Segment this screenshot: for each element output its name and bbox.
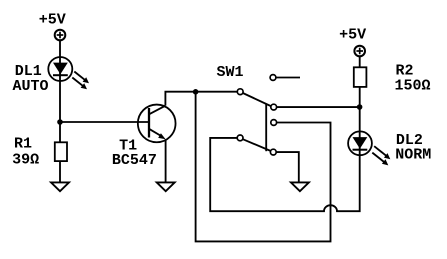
wire collector net down, across bottom, up to SW1 throw2 <box>196 92 331 242</box>
wire SW1 throw1 to R2/DL2 node <box>276 106 359 108</box>
ground (below SW1) <box>291 182 309 191</box>
ground (below T1 emitter) <box>157 182 175 191</box>
wire R1 to ground <box>59 161 61 182</box>
wire node A to T1 base <box>60 121 149 123</box>
switch SW1 upper pole arm <box>243 93 271 106</box>
wire terminal to DL1 and down to node A <box>59 41 61 143</box>
svg-text:150Ω: 150Ω <box>395 78 431 95</box>
svg-text:BC547: BC547 <box>112 152 157 169</box>
switch SW1 lower pole arm <box>243 139 271 151</box>
svg-text:39Ω: 39Ω <box>12 152 39 169</box>
power terminal +5V left <box>55 30 66 41</box>
switch SW1 upper pole common contact <box>237 89 243 95</box>
svg-text:+5V: +5V <box>339 26 366 43</box>
wire SW1 lower common down and right to DL2 cathode (with hop) <box>210 138 360 211</box>
node C junction dot (R2/DL2 net) <box>357 104 363 110</box>
transistor T1 <box>138 105 176 143</box>
power terminal +5V right <box>354 46 365 57</box>
LED DL1 <box>48 57 89 89</box>
node B junction dot (collector net) <box>193 89 199 95</box>
switch SW1 unused contact with stub <box>270 75 300 81</box>
switch SW1 upper throw 1 contact <box>271 104 277 110</box>
node A junction dot <box>57 119 63 125</box>
switch SW1 mechanical link bar <box>265 104 267 151</box>
svg-text:NORM: NORM <box>395 146 431 163</box>
switch SW1 upper throw 2 contact <box>271 120 277 126</box>
resistor R2 <box>354 67 367 87</box>
switch SW1 lower throw contact <box>270 149 276 155</box>
wire R2 through DL2 down <box>359 87 361 155</box>
svg-text:AUTO: AUTO <box>13 78 49 95</box>
ground (below R1) <box>51 182 69 191</box>
wire T1 collector up and right to SW1 common <box>165 92 237 106</box>
svg-text:R1: R1 <box>14 136 32 153</box>
wire T1 emitter to ground <box>165 139 167 182</box>
resistor R1 <box>55 142 67 161</box>
wire SW1 lower throw to ground <box>276 152 299 182</box>
switch SW1 lower pole common contact <box>237 135 243 141</box>
LED DL2 <box>348 131 390 165</box>
wire terminal to R2 <box>359 56 361 67</box>
svg-text:+5V: +5V <box>39 12 66 29</box>
svg-text:SW1: SW1 <box>217 64 244 81</box>
